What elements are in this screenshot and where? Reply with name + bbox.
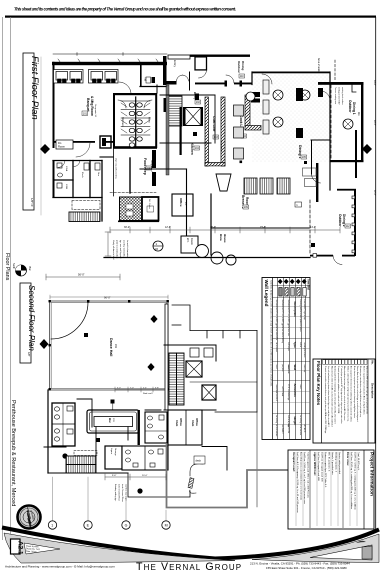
svg-text:insul.: insul.: [275, 365, 277, 370]
right wedge white triangle: [310, 545, 372, 560]
svg-text:213 N. Encina - Visalia, CA 93: 213 N. Encina - Visalia, CA 93291 - Ph. …: [250, 562, 350, 566]
svg-text:Liquor: Liquor: [110, 448, 113, 454]
angled server station: [216, 174, 231, 191]
dim line f2: [105, 474, 166, 480]
wall legend grid verticals: [278, 278, 306, 440]
svg-text:Banquet: Banquet: [86, 98, 90, 112]
food prep wall stub: [129, 158, 131, 193]
svg-text:1/8"=1': 1/8"=1': [30, 198, 34, 208]
dining1 east wall: [329, 72, 331, 190]
banquet top wall: [52, 62, 167, 65]
food prep room label: [143, 158, 153, 175]
dining1 stipple floor: [252, 74, 330, 162]
stall partitions: [121, 101, 150, 135]
grid bubble H: [162, 521, 170, 529]
outdoor dining1 bottom wall: [330, 160, 364, 162]
svg-text:5'-4": 5'-4": [143, 388, 147, 390]
key notes number boxes row: [323, 360, 368, 364]
step outline f2: [128, 473, 190, 497]
svg-text:WC: 8 Lavatories: 6: WC: 8 Lavatories: 6: [328, 452, 331, 472]
lobby small fixtures f2: [190, 348, 213, 357]
svg-text:Architecture and Planning - ww: Architecture and Planning - www.vernalgr…: [5, 565, 115, 569]
svg-text:Room: Room: [58, 145, 65, 149]
stall doors diagonal: [121, 103, 150, 133]
east wall upper segment: [355, 130, 357, 178]
grid line H: [165, 510, 167, 520]
wall x179: [180, 107, 182, 155]
svg-text:Dn: Dn: [58, 141, 62, 145]
svg-text:Service sinks provided: Service sinks provided: [338, 452, 341, 475]
svg-text:R-11 insulation typ.: R-11 insulation typ.: [287, 385, 290, 402]
svg-text:24'-6": 24'-6": [373, 80, 375, 86]
top wall: [190, 55, 250, 57]
coat line corridor U walls: [205, 97, 225, 166]
svg-text:Wall: Wall: [293, 365, 297, 371]
roof upper connect: [172, 305, 190, 331]
kitchen right wall: [214, 95, 216, 143]
keynote leader arrow: [190, 464, 203, 494]
svg-text:A2.1: A2.1: [17, 541, 24, 555]
svg-text:Line of roof overhang above sh: Line of roof overhang above shown dashed…: [327, 366, 330, 427]
svg-text:2x4 studs at 16" o.c. w 5/8" g: 2x4 studs at 16" o.c. w 5/8" gyp bd ea s…: [281, 300, 284, 344]
svg-text:101: 101: [83, 112, 88, 116]
speaker square below bar: [96, 438, 100, 442]
svg-text:typ. see wall legend: typ. see wall legend: [119, 240, 122, 259]
svg-text:New storefront window system s: New storefront window system see schedul…: [343, 366, 346, 420]
small room fixtures: [57, 163, 100, 188]
svg-text:Wall Note: All dims typ. U.O.N: Wall Note: All dims typ. U.O.N. denotes …: [270, 281, 273, 387]
stair xbox flank left: [183, 107, 185, 126]
outdoor dining2 door arc: [333, 256, 342, 265]
dining1 booths west: [263, 80, 269, 134]
brew tanks: [196, 245, 237, 266]
north arrow bubble floor1: [12, 263, 31, 276]
hall bottom wall: [140, 86, 166, 88]
entry stair hatch: [168, 96, 183, 126]
svg-text:w R-13 batt: w R-13 batt: [281, 387, 284, 397]
svg-text:Men: Men: [148, 117, 152, 123]
dim labels f1: [124, 226, 316, 229]
bench hatch 3: [277, 178, 290, 194]
diamond marker left: [40, 144, 50, 154]
svg-text:Project Information: Project Information: [369, 452, 375, 496]
dance hall outline outer: [50, 301, 169, 390]
svg-text:Hall: Hall: [144, 77, 147, 82]
banquet equip box: [100, 136, 111, 148]
keynote tag: [188, 478, 194, 489]
svg-text:96'-0": 96'-0": [104, 296, 111, 300]
svg-text:existing deck surface: existing deck surface: [341, 87, 344, 105]
svg-text:155 East Shaw Suite 301 - Fres: 155 East Shaw Suite 301 - Fresno, CA 937…: [266, 566, 347, 570]
svg-text:112: 112: [346, 225, 350, 228]
svg-text:Occupant Load:: Occupant Load:: [292, 452, 296, 472]
svg-text:verify guardrail ht 42": verify guardrail ht 42": [338, 87, 341, 105]
key notes title divider: [321, 359, 323, 443]
dot lower f2: [137, 488, 142, 493]
svg-text:Mop sink w FRP panels 48" high: Mop sink w FRP panels 48" high typ. at a…: [366, 366, 369, 414]
wall legend title divider: [272, 278, 274, 440]
svg-text:THE VERNAL GROUP: THE VERNAL GROUP: [136, 561, 242, 573]
stairs bottom-left f2: [66, 456, 96, 473]
svg-text:56'-0": 56'-0": [78, 273, 85, 277]
svg-text:Dance Hall: Dance Hall: [109, 338, 113, 356]
dim line far bottom: [46, 274, 120, 280]
left border inner line: [10, 17, 12, 540]
stairs dashed upper run: [72, 201, 100, 210]
svg-text:101A: 101A: [65, 166, 68, 172]
kitchen label: [190, 143, 200, 155]
svg-text:Walk-in cooler by others verif: Walk-in cooler by others verify rough op…: [346, 366, 349, 422]
svg-text:2x6 studs at 16" o.c. w 5/8" g: 2x6 studs at 16" o.c. w 5/8" gyp bd ea s…: [275, 300, 278, 341]
stairs rail f2: [176, 353, 178, 405]
notes text block f1: [112, 240, 129, 260]
svg-text:sound: sound: [287, 365, 289, 370]
dim labels f2: [112, 475, 148, 477]
hall wall above restrooms: [156, 85, 158, 93]
svg-text:Existing wall to remain protec: Existing wall to remain protect in place: [299, 300, 302, 332]
stairs dashed f2: [74, 451, 97, 456]
svg-text:Dining: Dining: [241, 61, 245, 70]
svg-text:Item Wall: Item Wall: [306, 280, 309, 291]
svg-text:Floor Area:: Floor Area:: [346, 452, 350, 466]
dim line bottom f1: [105, 227, 340, 256]
od1 corner notch: [352, 85, 356, 92]
office room: [172, 194, 193, 216]
svg-text:3'-0": 3'-0": [117, 388, 121, 390]
terrace note block: [334, 87, 344, 105]
svg-text:G: G: [125, 524, 128, 528]
svg-text:typ U.O.N.: typ U.O.N.: [287, 425, 290, 434]
cook equipment black rects: [250, 92, 260, 103]
diamond marker mid f2: [150, 315, 157, 323]
svg-text:Occupants: 8: Occupants: 8: [220, 140, 223, 153]
wall legend diamonds row: [278, 279, 307, 284]
svg-text:103: 103: [214, 136, 219, 139]
svg-text:Terrace seating area: Terrace seating area: [334, 87, 337, 105]
bar f2: [87, 404, 139, 434]
svg-text:Drinking fountains: 2: Drinking fountains: 2: [335, 452, 338, 473]
svg-text:Plan: Plan: [28, 266, 31, 271]
svg-text:to be leveled First: to be leveled First: [118, 484, 121, 501]
svg-text:align new wall w existing: align new wall w existing: [115, 158, 118, 179]
svg-text:Second Floor Plan: Second Floor Plan: [27, 285, 36, 351]
svg-text:prior to construction: prior to construction: [116, 240, 119, 259]
svg-text:New stair per detail sheet A5.: New stair per detail sheet A5.1 w handra…: [330, 366, 333, 427]
svg-text:No.: No.: [371, 361, 375, 365]
dim row above bar: [115, 387, 165, 392]
kitchen west wall gray: [166, 85, 169, 175]
svg-text:to dn Second Floor: to dn Second Floor: [121, 484, 124, 502]
door arcs rooms: [58, 143, 90, 168]
svg-text:Outdoor: Outdoor: [237, 61, 241, 74]
outdoor dining2 west dashed edge: [309, 200, 311, 255]
svg-text:Outdoor: Outdoor: [338, 214, 342, 227]
svg-text:Assembly areas concentrated us: Assembly areas concentrated use w/o fixe…: [300, 452, 303, 501]
black dot kitchen: [193, 132, 197, 136]
grid bubble 1: [48, 521, 56, 529]
liquor storage: [105, 446, 122, 469]
svg-text:1st Floor: A-2.1 Occupancy: 8,: 1st Floor: A-2.1 Occupancy: 8,030 sq. ft…: [296, 452, 299, 513]
stair xbox: [185, 108, 201, 126]
diamond marker mid2 f2: [147, 363, 154, 371]
club office rooms: [168, 410, 202, 445]
svg-text:Description: Description: [371, 383, 375, 399]
svg-text:32'-0": 32'-0": [373, 190, 375, 196]
svg-text:Provide presentation platform,: Provide presentation platform, as outlin…: [337, 366, 340, 414]
svg-text:1: 1: [51, 524, 53, 528]
wall kitchen to brewery: [160, 142, 211, 144]
speaker square above bar: [111, 400, 115, 404]
svg-text:Outdoor: Outdoor: [348, 100, 352, 113]
svg-text:Stor: Stor: [97, 172, 100, 176]
A2.1 sheet number box: [11, 539, 21, 554]
closet box: [195, 57, 207, 70]
swoosh main curve: [2, 528, 379, 559]
outdoor dining top strip: [190, 55, 252, 101]
left wedge detail lines: [24, 543, 60, 554]
svg-text:for add. information: for add. information: [126, 240, 129, 259]
svg-text:14'-0": 14'-0": [310, 226, 316, 229]
second floor plan title box: [20, 283, 36, 363]
svg-text:Kitchen equipment per vendor p: Kitchen equipment per vendor plan N.I.C.…: [362, 366, 365, 414]
prep equipment west: [152, 150, 156, 186]
outdoor dining1 top wall: [318, 82, 364, 85]
svg-text:2nd Floor: 6,800 sq. ft. exi: 2nd Floor: 6,800 sq. ft. existing plus 4…: [354, 452, 357, 510]
svg-text:109: 109: [244, 206, 249, 209]
occupant load section: [292, 452, 310, 513]
svg-text:6'-8": 6'-8": [155, 388, 159, 390]
svg-text:Floor Plan Key Notes: Floor Plan Key Notes: [316, 361, 321, 406]
entry door arc: [226, 75, 234, 83]
hall label: [144, 77, 156, 83]
svg-text:15'-8": 15'-8": [260, 226, 266, 229]
key notes header divider: [367, 359, 369, 443]
svg-text:104: 104: [195, 147, 200, 150]
small wall details f2 left: [77, 399, 161, 456]
outdoor dining2 planter: [311, 243, 315, 247]
svg-text:16'-0": 16'-0": [210, 226, 216, 229]
outdoor dining2 right wall: [354, 189, 356, 256]
svg-text:105: 105: [302, 156, 307, 159]
toilets: [129, 103, 142, 147]
svg-text:M: M: [165, 524, 168, 528]
right border line: [375, 17, 377, 533]
svg-text:Storage: Storage: [114, 448, 117, 456]
stairs f2: [169, 353, 184, 405]
deck label box: [194, 456, 205, 464]
svg-text:Floor Plans: Floor Plans: [4, 253, 10, 281]
svg-text:201: 201: [114, 344, 117, 349]
restroom block walls: [113, 93, 157, 149]
svg-text:per plan: per plan: [281, 365, 284, 372]
planter on bottom wall: [313, 254, 317, 258]
outdoor dining2 bottom wall: [310, 255, 333, 257]
outdoor dining2 top wall: [337, 189, 356, 191]
svg-text:at as noted: at as noted: [275, 343, 278, 352]
banquet top wall hatch ticks: [58, 53, 158, 62]
left wall lower f2: [47, 390, 49, 473]
outdoor dining2 posts: [352, 196, 355, 253]
speaker square: [84, 333, 88, 337]
diamond marker left f2: [40, 339, 49, 349]
svg-text:North: North: [12, 263, 15, 270]
hood dashed line: [110, 192, 156, 194]
stairs lower-left: [69, 212, 100, 222]
svg-text:Dining 1: Dining 1: [352, 102, 356, 115]
wall legend tiny content: [275, 300, 306, 437]
wall swatches row: [279, 288, 306, 297]
svg-text:Approx W/DR Calc:: Approx W/DR Calc:: [313, 452, 317, 476]
banquet left wall: [53, 62, 55, 148]
svg-text:Low wall 42" high w cap: Low wall 42" high w cap: [303, 300, 305, 320]
checker inner labels: [126, 204, 133, 216]
svg-text:First Floor Plan: First Floor Plan: [30, 56, 41, 120]
svg-text:Office: Office: [179, 198, 183, 207]
svg-text:12'-6": 12'-6": [165, 226, 171, 229]
grid line G: [125, 498, 127, 520]
svg-text:deck: deck: [196, 459, 202, 463]
svg-text:Elevator per manufacturer veri: Elevator per manufacturer verify shaft d…: [359, 366, 362, 418]
svg-text:Height: Height: [293, 417, 297, 426]
dining1 planters: [296, 88, 323, 138]
server counter loops: [303, 168, 317, 187]
roof line above banquet: [53, 53, 167, 55]
svg-text:Total: 16,620 sq. ft.: Total: 16,620 sq. ft.: [357, 452, 360, 471]
restroom right f2: [145, 412, 167, 443]
right logo swirl: [356, 541, 366, 543]
entry upper boxes: [168, 55, 190, 59]
cook line label: [239, 115, 247, 138]
mid wall y228: [211, 227, 309, 229]
bottom wall segments: [195, 83, 225, 85]
banquet door arc: [119, 82, 131, 93]
step wall to dining1: [251, 72, 253, 85]
wdr calc section: [313, 452, 341, 488]
svg-text:Existing wall to be removed ty: Existing wall to be removed typ. see dem…: [334, 366, 337, 424]
svg-text:and key notes A2.2: and key notes A2.2: [123, 240, 126, 259]
left wall lower segment: [53, 160, 55, 198]
svg-text:Total Occupant Load: 986 w exi: Total Occupant Load: 986 w exit x 925 Pe…: [307, 452, 310, 499]
rooms band f2: [122, 446, 168, 470]
grid bubble G: [122, 521, 130, 529]
svg-text:to ceiling +6": to ceiling +6": [299, 416, 302, 427]
key notes content lines: [324, 366, 369, 434]
svg-text:Room: Room: [190, 238, 194, 245]
svg-text:House: House: [223, 234, 227, 243]
corridor east tables: [234, 105, 244, 159]
svg-text:Brew: Brew: [219, 234, 223, 242]
entry label: [193, 92, 201, 104]
svg-text:2nd Floor: 5,580 sq. ft. at 7: 2nd Floor: 5,580 sq. ft. at 7 sq ft net …: [303, 452, 306, 505]
dining1 tables: [246, 90, 310, 127]
roof outline top: [190, 331, 257, 508]
jamb blocks: [225, 81, 228, 87]
svg-text:Women: Women: [121, 117, 125, 127]
svg-text:Description: Description: [293, 302, 297, 318]
keynote box right: [295, 202, 302, 207]
grid line E: [87, 477, 89, 520]
elevator 1: [186, 361, 202, 377]
dance hall outline inner: [51, 303, 166, 389]
dn room label box: [56, 140, 73, 149]
bar dot: [62, 453, 67, 458]
dining1 west hatched wall: [245, 95, 261, 130]
dance hall corner dots: [49, 300, 169, 390]
floor area section: [346, 452, 360, 510]
svg-text:9'-6": 9'-6": [112, 475, 117, 477]
svg-text:Type: Type: [293, 342, 297, 349]
svg-text:Wall Legend: Wall Legend: [264, 280, 269, 307]
checker storage tile: [120, 197, 143, 221]
svg-text:Office: Office: [195, 418, 199, 426]
cook dot: [240, 161, 243, 164]
svg-text:Urinals: 3 provided min.: Urinals: 3 provided min.: [331, 452, 334, 475]
stair xbox flank right: [201, 107, 203, 126]
svg-text:& Mtg Room: & Mtg Room: [90, 96, 94, 116]
bottom wall f2: [48, 472, 128, 474]
project info outer box: [288, 450, 374, 529]
first floor plan title box: [23, 53, 41, 210]
svg-text:full ht: full ht: [299, 343, 302, 348]
corridor corner jamb: [195, 94, 199, 101]
cooler bottom wall: [118, 221, 159, 223]
wall legend outer box: [262, 278, 310, 440]
svg-text:Existing railing typ.: Existing railing typ.: [114, 484, 117, 502]
outdoor dining1 right wall: [361, 82, 363, 162]
svg-text:to ceiling: to ceiling: [275, 416, 278, 423]
restroom entry arcs: [118, 100, 152, 108]
svg-text:Club: Club: [175, 420, 179, 427]
wall x186: [186, 169, 188, 236]
notes block f2: [114, 484, 128, 502]
entry double door arcs: [177, 75, 189, 81]
svg-text:at corridor: at corridor: [299, 427, 302, 436]
door swing arc top-left: [51, 302, 88, 339]
svg-text:Mech: Mech: [81, 172, 83, 178]
left border outer line: [2, 17, 4, 540]
svg-text:existing to remain: existing to remain: [303, 343, 306, 358]
svg-text:102: 102: [196, 101, 201, 104]
lower-left rooms walls: [53, 161, 102, 222]
svg-text:101B: 101B: [65, 184, 67, 190]
svg-text:1st Floor: 8,500 sq. ft. ex: 1st Floor: 8,500 sq. ft. existing plus 8…: [350, 452, 353, 510]
svg-text:7'-0": 7'-0": [130, 388, 134, 390]
grid line 1: [52, 477, 54, 520]
architect seal: [18, 506, 41, 530]
elevator 2: [202, 385, 216, 400]
svg-text:3" steel pipe guardrail 42" hi: 3" steel pipe guardrail 42" high typ at …: [340, 366, 343, 424]
restrooms f2: [52, 403, 75, 446]
closet door arc: [199, 70, 207, 78]
key notes outer box: [313, 359, 375, 443]
svg-text:none: none: [299, 385, 301, 389]
svg-text:2nd Floor Occupant Load:: 2nd Floor Occupant Load: 390: [321, 452, 324, 482]
dining1 door arcs: [262, 74, 330, 100]
svg-text:30'-2": 30'-2": [124, 226, 130, 229]
WI room: [181, 236, 198, 253]
svg-text:20'-0": 20'-0": [142, 475, 148, 477]
svg-text:none req.: none req.: [303, 365, 306, 373]
svg-text:1st Floor Occupant Load:: 1st Floor Occupant Load: 486: [317, 452, 320, 482]
lobby walls f2: [164, 345, 216, 410]
bench hatch 1: [244, 178, 257, 194]
svg-text:Entry: Entry: [173, 60, 177, 68]
wall left of stairs f2: [44, 446, 66, 448]
hall west wall: [140, 65, 142, 87]
svg-text:18'-2": 18'-2": [373, 120, 375, 126]
left gutter faint line: [40, 57, 42, 215]
kitchen top wall: [160, 94, 215, 96]
